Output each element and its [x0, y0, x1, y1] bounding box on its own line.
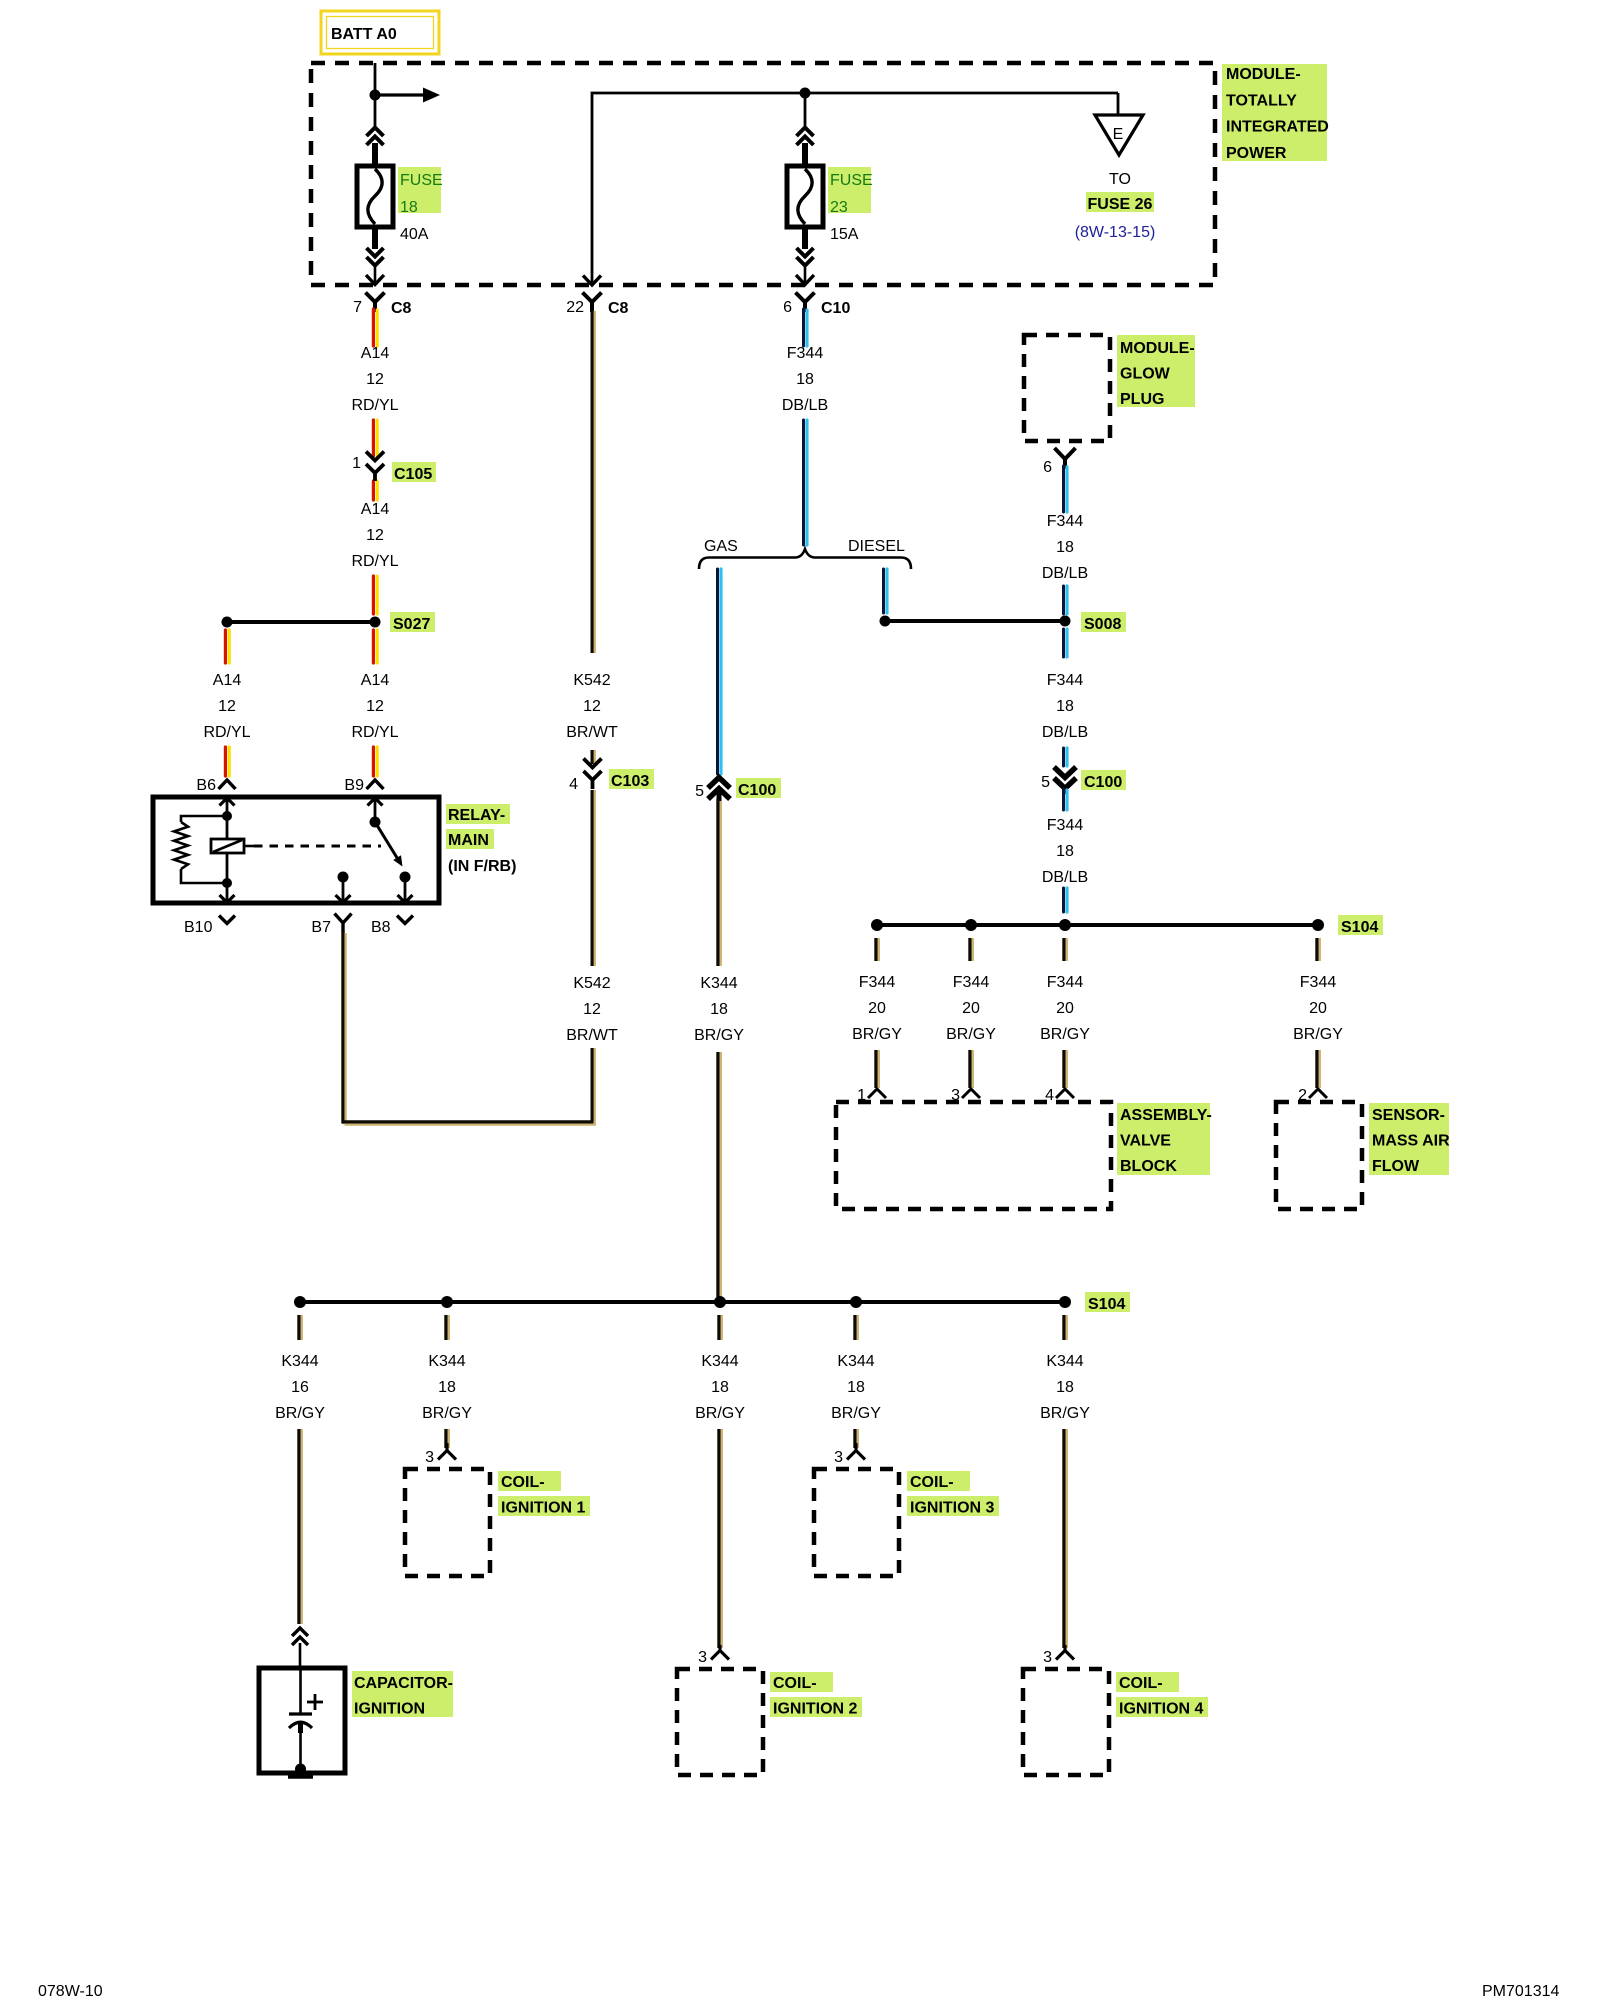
wire relay coil branch — [226, 816, 229, 883]
label ASSEMBLY-VALVE BLOCK — [1117, 1103, 1212, 1175]
wire RD/YL down to splice S027 — [373, 576, 377, 614]
wire relay pin B9 entry arrow — [368, 798, 383, 822]
wire relay pin B6 entry arrow — [220, 798, 235, 814]
svg-text:S027: S027 — [393, 616, 430, 633]
svg-text:22: 22 — [566, 299, 584, 316]
svg-text:C8: C8 — [608, 300, 629, 317]
svg-text:IGNITION 1: IGNITION 1 — [501, 1499, 586, 1516]
node coil bottom junction — [222, 878, 232, 888]
pin B10 — [184, 916, 235, 937]
value label K344 18 BR/GY — [1040, 1353, 1090, 1422]
svg-text:RD/YL: RD/YL — [351, 553, 398, 570]
connector C8 pin 7 — [353, 293, 411, 318]
wire BR/WT into C103 — [592, 750, 595, 966]
svg-text:5: 5 — [1041, 774, 1050, 791]
svg-text:5: 5 — [695, 783, 704, 800]
label MODULE-GLOW PLUG — [1117, 335, 1195, 408]
wire top bus from corner above C8-22 to triangle drop — [592, 93, 1118, 285]
wire stub F344 valve pin 3 — [970, 938, 973, 961]
svg-text:A14: A14 — [361, 501, 390, 518]
svg-text:GLOW: GLOW — [1120, 365, 1171, 382]
svg-text:BR/GY: BR/GY — [1040, 1026, 1090, 1043]
svg-text:6: 6 — [783, 299, 792, 316]
assembly valve block dashed box — [836, 1102, 1111, 1209]
svg-text:C10: C10 — [821, 300, 850, 317]
label COIL-IGNITION 3 — [907, 1471, 999, 1516]
sensor mass air flow dashed box — [1276, 1102, 1362, 1209]
svg-text:20: 20 — [1309, 1000, 1327, 1017]
wire thick into fuse 18 — [372, 143, 378, 167]
pin 3 coil 4 — [1043, 1645, 1074, 1666]
value label FUSE 18 40A — [398, 167, 443, 243]
svg-text:BR/GY: BR/GY — [831, 1405, 881, 1422]
value label A14 12 RD/YL — [203, 672, 250, 741]
connector C8 pin 22 — [566, 293, 628, 318]
relay coil — [211, 839, 254, 853]
wire relay pin B10 exit arrow — [220, 883, 235, 903]
svg-text:FUSE: FUSE — [830, 172, 873, 189]
svg-text:F344: F344 — [1047, 974, 1084, 991]
wire drop to off-page triangle E — [1117, 93, 1120, 116]
pin 4 valve block — [1045, 1087, 1074, 1104]
node junction at fuse 18 feed — [370, 90, 381, 101]
svg-text:20: 20 — [962, 1000, 980, 1017]
wire BR/GY long run to capacitor — [299, 1429, 302, 1624]
svg-text:K344: K344 — [1046, 1353, 1083, 1370]
svg-text:FLOW: FLOW — [1372, 1158, 1420, 1175]
wire into capacitor box — [299, 1643, 302, 1670]
value label F344 18 DB/LB — [1042, 817, 1088, 886]
svg-text:BLOCK: BLOCK — [1120, 1158, 1177, 1175]
svg-text:BR/GY: BR/GY — [694, 1027, 744, 1044]
coil ignition 3 dashed box — [814, 1469, 899, 1576]
svg-text:COIL-: COIL- — [1119, 1675, 1163, 1692]
connector C105 pin 1 — [352, 452, 436, 501]
svg-text:B8: B8 — [371, 919, 391, 936]
wire F344 18 DB/LB below C100 — [1064, 789, 1068, 810]
value label F344 18 DB/LB — [782, 345, 828, 414]
svg-text:IGNITION 2: IGNITION 2 — [773, 1700, 858, 1717]
svg-text:C100: C100 — [738, 782, 776, 799]
connector C100 pin 5 (diesel) — [1041, 767, 1126, 794]
svg-text:BR/WT: BR/WT — [566, 1027, 618, 1044]
svg-text:RELAY-: RELAY- — [448, 807, 505, 824]
value label A14 12 RD/YL — [351, 501, 398, 570]
pin B8 — [371, 916, 413, 937]
module glow plug dashed box — [1024, 335, 1110, 441]
svg-text:POWER: POWER — [1226, 145, 1287, 162]
wire stub K344 coil 3 branch — [855, 1315, 858, 1340]
svg-text:(8W-13-15): (8W-13-15) — [1075, 224, 1156, 241]
svg-text:4: 4 — [569, 776, 578, 793]
wire DB/LB DIESEL branch down to S008 — [884, 569, 888, 613]
svg-text:K344: K344 — [701, 1353, 738, 1370]
wire BR/GY long run into coil 2 pin 3 — [719, 1429, 722, 1648]
splice S104 upper bus — [871, 915, 1383, 936]
svg-text:18: 18 — [711, 1379, 729, 1396]
value label K344 18 BR/GY — [831, 1353, 881, 1422]
ground node at capacitor — [288, 1764, 313, 1777]
value label F344 20 BR/GY — [946, 974, 996, 1043]
value label F344 20 BR/GY — [1040, 974, 1090, 1043]
label TO FUSE 26 (8W-13-15) — [1075, 171, 1156, 241]
svg-text:FUSE: FUSE — [400, 172, 443, 189]
label COIL-IGNITION 2 — [770, 1672, 862, 1717]
svg-text:MODULE-: MODULE- — [1120, 340, 1195, 357]
value label K344 18 BR/GY — [694, 975, 744, 1044]
svg-text:6: 6 — [1043, 459, 1052, 476]
svg-text:MAIN: MAIN — [448, 832, 489, 849]
svg-text:12: 12 — [583, 1001, 601, 1018]
wire BR/GY down to splice S104 — [718, 1052, 721, 1297]
connector chevrons above capacitor — [292, 1628, 308, 1645]
wire RD/YL to relay pin B9 — [373, 747, 377, 776]
svg-text:K344: K344 — [428, 1353, 465, 1370]
svg-text:F344: F344 — [1300, 974, 1337, 991]
svg-text:B10: B10 — [184, 919, 213, 936]
svg-text:40A: 40A — [400, 226, 429, 243]
svg-text:IGNITION: IGNITION — [354, 1700, 425, 1717]
svg-text:7: 7 — [353, 299, 362, 316]
svg-text:K542: K542 — [573, 672, 610, 689]
svg-text:DB/LB: DB/LB — [1042, 869, 1088, 886]
svg-text:DB/LB: DB/LB — [782, 397, 828, 414]
value label K344 18 BR/GY — [695, 1353, 745, 1422]
connector pin 6 below glow plug module — [1043, 448, 1075, 476]
wire BR/GY into coil 3 pin 3 — [855, 1429, 858, 1448]
wire below fuse 23 with chevrons and arrowhead — [802, 227, 808, 249]
svg-text:PLUG: PLUG — [1120, 391, 1164, 408]
relay K1 RELAY-MAIN (IN F/RB) box — [153, 797, 439, 903]
svg-text:078W-10: 078W-10 — [38, 1983, 103, 2000]
svg-text:3: 3 — [834, 1449, 843, 1466]
svg-text:12: 12 — [583, 698, 601, 715]
wire stub K344 coil 2 branch — [719, 1315, 722, 1340]
value label K542 12 BR/WT — [566, 975, 618, 1044]
svg-text:18: 18 — [1056, 1379, 1074, 1396]
svg-text:BR/GY: BR/GY — [946, 1026, 996, 1043]
pin 1 valve block — [857, 1087, 886, 1104]
value label FUSE 23 15A — [828, 167, 873, 243]
svg-text:COIL-: COIL- — [910, 1474, 954, 1491]
svg-text:GAS: GAS — [704, 538, 738, 555]
svg-text:F344: F344 — [1047, 672, 1084, 689]
svg-text:K344: K344 — [837, 1353, 874, 1370]
svg-text:A14: A14 — [361, 345, 390, 362]
svg-text:BR/GY: BR/GY — [422, 1405, 472, 1422]
wire K542 12 BR/WT from C8-22 down — [592, 310, 595, 653]
svg-text:S104: S104 — [1341, 919, 1378, 936]
node pin B7 head — [338, 872, 349, 883]
wire into valve block pin 4 — [1064, 1050, 1067, 1088]
svg-text:3: 3 — [698, 1649, 707, 1666]
svg-text:TOTALLY: TOTALLY — [1226, 92, 1297, 109]
node junction at fuse 23 feed — [800, 88, 811, 99]
wire K344 18 BR/GY below C100 gas — [718, 799, 721, 966]
capacitor C1 CAPACITOR-IGNITION box — [259, 1668, 345, 1773]
wire K542 12 BR/WT from relay B7 down and right — [342, 931, 596, 1125]
svg-text:RD/YL: RD/YL — [351, 397, 398, 414]
pin 3 coil 2 — [698, 1645, 729, 1666]
node GAS/DIESEL brace split — [699, 538, 911, 569]
svg-text:BR/WT: BR/WT — [566, 724, 618, 741]
wire DB/LB into splice S104 — [1064, 888, 1068, 912]
svg-text:BR/GY: BR/GY — [1040, 1405, 1090, 1422]
svg-text:A14: A14 — [361, 672, 390, 689]
off-page connector triangle E to FUSE 26 — [1095, 115, 1143, 155]
pin 2 mass air flow sensor — [1298, 1087, 1327, 1104]
label SENSOR-MASS AIR FLOW — [1369, 1103, 1450, 1175]
svg-text:18: 18 — [1056, 843, 1074, 860]
wire relay pin B8 exit arrow — [398, 877, 413, 903]
svg-text:MODULE-: MODULE- — [1226, 66, 1301, 83]
wire below fuse 18 with connector chevrons and arrowhead — [372, 227, 378, 249]
wire F344 18 DB/LB below glow plug — [1064, 466, 1068, 512]
svg-text:18: 18 — [1056, 698, 1074, 715]
svg-text:F344: F344 — [1047, 513, 1084, 530]
pin 3 valve block — [951, 1087, 980, 1104]
label CAPACITOR-IGNITION — [352, 1671, 453, 1717]
pin B6 — [196, 777, 235, 794]
svg-text:DIESEL: DIESEL — [848, 538, 905, 555]
svg-text:E: E — [1113, 126, 1124, 143]
wire DB/LB into C100 pin 5 — [1064, 748, 1068, 766]
value label F344 18 DB/LB — [1042, 513, 1088, 582]
svg-text:18: 18 — [400, 199, 418, 216]
svg-text:S008: S008 — [1084, 616, 1121, 633]
svg-text:DB/LB: DB/LB — [1042, 724, 1088, 741]
wire A14 12 RD/YL from C8-7 — [373, 309, 377, 346]
fuse F23 — [787, 166, 823, 227]
label COIL-IGNITION 1 — [498, 1471, 590, 1516]
svg-text:18: 18 — [438, 1379, 456, 1396]
svg-text:23: 23 — [830, 199, 848, 216]
pin B9 — [344, 777, 383, 794]
wire F344 18 DB/LB from C10-6 — [804, 309, 808, 346]
wire stub F344 sensor pin 2 — [1317, 938, 1320, 961]
battery feed label box BATT A0 — [321, 11, 439, 54]
wire DB/LB GAS branch down to C100 — [718, 569, 722, 774]
coil ignition 1 dashed box — [405, 1469, 490, 1576]
svg-text:VALVE: VALVE — [1120, 1132, 1171, 1149]
wire RD/YL left branch of S027 — [225, 630, 229, 663]
wire DB/LB below splice S008 — [1064, 629, 1068, 657]
wire DB/LB down to GAS/DIESEL split — [804, 420, 808, 545]
node switch common — [370, 817, 381, 828]
wire stub K344 capacitor branch — [299, 1315, 302, 1340]
svg-text:C8: C8 — [391, 300, 412, 317]
value label F344 20 BR/GY — [1293, 974, 1343, 1043]
wire RD/YL right branch of S027 — [373, 630, 377, 663]
svg-text:18: 18 — [796, 371, 814, 388]
svg-text:20: 20 — [1056, 1000, 1074, 1017]
wire BR/GY long run into coil 4 pin 3 — [1064, 1429, 1067, 1648]
svg-text:A14: A14 — [213, 672, 242, 689]
wire into mass air flow sensor pin 2 — [1317, 1050, 1320, 1088]
svg-text:S104: S104 — [1088, 1296, 1125, 1313]
module - totally integrated power dashed box — [311, 63, 1215, 285]
splice S104 lower bus — [294, 1292, 1130, 1313]
svg-text:C105: C105 — [394, 466, 432, 483]
fuse F23 column chevrons — [797, 128, 814, 146]
label COIL-IGNITION 4 — [1116, 1672, 1208, 1717]
svg-text:BR/GY: BR/GY — [852, 1026, 902, 1043]
svg-text:K542: K542 — [573, 975, 610, 992]
svg-text:K344: K344 — [700, 975, 737, 992]
value label F344 20 BR/GY — [852, 974, 902, 1043]
svg-text:RD/YL: RD/YL — [351, 724, 398, 741]
wire into valve block pin 3 — [970, 1050, 973, 1088]
svg-text:3: 3 — [425, 1449, 434, 1466]
svg-text:BATT A0: BATT A0 — [331, 26, 397, 43]
svg-text:12: 12 — [366, 371, 384, 388]
svg-text:15A: 15A — [830, 226, 859, 243]
splice S008 tie line — [880, 612, 1127, 633]
wire DB/LB into splice S008 — [1064, 586, 1068, 614]
pin 3 coil 3 — [834, 1443, 865, 1466]
svg-text:ASSEMBLY-: ASSEMBLY- — [1120, 1107, 1212, 1124]
connector C100 pin 5 (gas) — [695, 778, 781, 802]
svg-text:BR/GY: BR/GY — [275, 1405, 325, 1422]
svg-text:PM701314: PM701314 — [1482, 1983, 1559, 2000]
splice S027 — [222, 612, 436, 633]
svg-text:IGNITION 4: IGNITION 4 — [1119, 1700, 1204, 1717]
svg-text:FUSE 26: FUSE 26 — [1088, 196, 1153, 213]
fuse F18 column: connector chevrons above fuse — [367, 128, 384, 146]
connector C10 pin 6 — [783, 293, 850, 318]
svg-text:SENSOR-: SENSOR- — [1372, 1107, 1445, 1124]
svg-text:COIL-: COIL- — [773, 1675, 817, 1692]
svg-text:MASS AIR: MASS AIR — [1372, 1132, 1450, 1149]
svg-text:TO: TO — [1109, 171, 1131, 188]
value label K344 16 BR/GY — [275, 1353, 325, 1422]
label RELAY-MAIN (IN F/RB) — [446, 804, 516, 875]
svg-text:F344: F344 — [859, 974, 896, 991]
svg-text:BR/GY: BR/GY — [1293, 1026, 1343, 1043]
value label K542 12 BR/WT — [566, 672, 618, 741]
svg-text:F344: F344 — [953, 974, 990, 991]
svg-text:B6: B6 — [196, 777, 216, 794]
svg-text:F344: F344 — [1047, 817, 1084, 834]
value label F344 18 DB/LB — [1042, 672, 1088, 741]
wire BR/GY into coil 1 pin 3 — [446, 1429, 449, 1448]
coil ignition 4 dashed box — [1023, 1669, 1109, 1775]
node coil top junction — [222, 811, 232, 821]
wire BATT A0 down into TIPM — [374, 63, 377, 128]
svg-text:B9: B9 — [344, 777, 364, 794]
svg-text:IGNITION 3: IGNITION 3 — [910, 1499, 995, 1516]
svg-text:12: 12 — [366, 698, 384, 715]
svg-text:DB/LB: DB/LB — [1042, 565, 1088, 582]
wire relay actuation dashed link — [254, 845, 381, 848]
svg-text:1: 1 — [352, 455, 361, 472]
resistor relay shunt — [174, 816, 227, 883]
wire RD/YL — [373, 420, 377, 456]
svg-text:BR/GY: BR/GY — [695, 1405, 745, 1422]
fuse F18 — [357, 166, 393, 227]
wire arrow feed to right — [375, 88, 440, 103]
coil ignition 2 dashed box — [677, 1669, 763, 1775]
wire relay pin B7 exit arrow — [336, 877, 351, 903]
label MODULE-TOTALLY INTEGRATED POWER — [1222, 64, 1329, 162]
capacitor element (polarized) — [289, 1668, 323, 1769]
connector C103 pin 4 — [569, 759, 654, 794]
svg-text:20: 20 — [868, 1000, 886, 1017]
svg-text:3: 3 — [1043, 1649, 1052, 1666]
wire stub K344 coil 1 branch — [446, 1315, 449, 1340]
svg-text:RD/YL: RD/YL — [203, 724, 250, 741]
svg-text:18: 18 — [710, 1001, 728, 1018]
svg-text:K344: K344 — [281, 1353, 318, 1370]
svg-text:16: 16 — [291, 1379, 309, 1396]
svg-text:(IN F/RB): (IN F/RB) — [448, 858, 516, 875]
node switch contact — [400, 872, 411, 883]
value label K344 18 BR/GY — [422, 1353, 472, 1422]
svg-text:C103: C103 — [611, 773, 649, 790]
svg-text:18: 18 — [1056, 539, 1074, 556]
wire into valve block pin 1 — [876, 1050, 879, 1088]
wire RD/YL to relay pin B6 — [225, 747, 229, 776]
svg-text:18: 18 — [847, 1379, 865, 1396]
value label A14 12 RD/YL — [351, 672, 398, 741]
svg-text:12: 12 — [366, 527, 384, 544]
svg-text:12: 12 — [218, 698, 236, 715]
svg-text:INTEGRATED: INTEGRATED — [1226, 119, 1329, 136]
svg-text:COIL-: COIL- — [501, 1474, 545, 1491]
svg-text:F344: F344 — [787, 345, 824, 362]
svg-text:B7: B7 — [311, 919, 331, 936]
svg-text:C100: C100 — [1084, 774, 1122, 791]
relay switch arm — [375, 822, 403, 867]
pin 3 coil 1 — [425, 1443, 456, 1466]
svg-text:CAPACITOR-: CAPACITOR- — [354, 1675, 453, 1692]
wire stub F344 valve pin 4 — [1064, 938, 1067, 961]
wire stub F344 valve pin 1 — [876, 938, 879, 961]
wire stub K344 coil 4 branch — [1064, 1315, 1067, 1340]
value label A14 12 RD/YL — [351, 345, 398, 414]
pin B7 — [311, 914, 351, 937]
